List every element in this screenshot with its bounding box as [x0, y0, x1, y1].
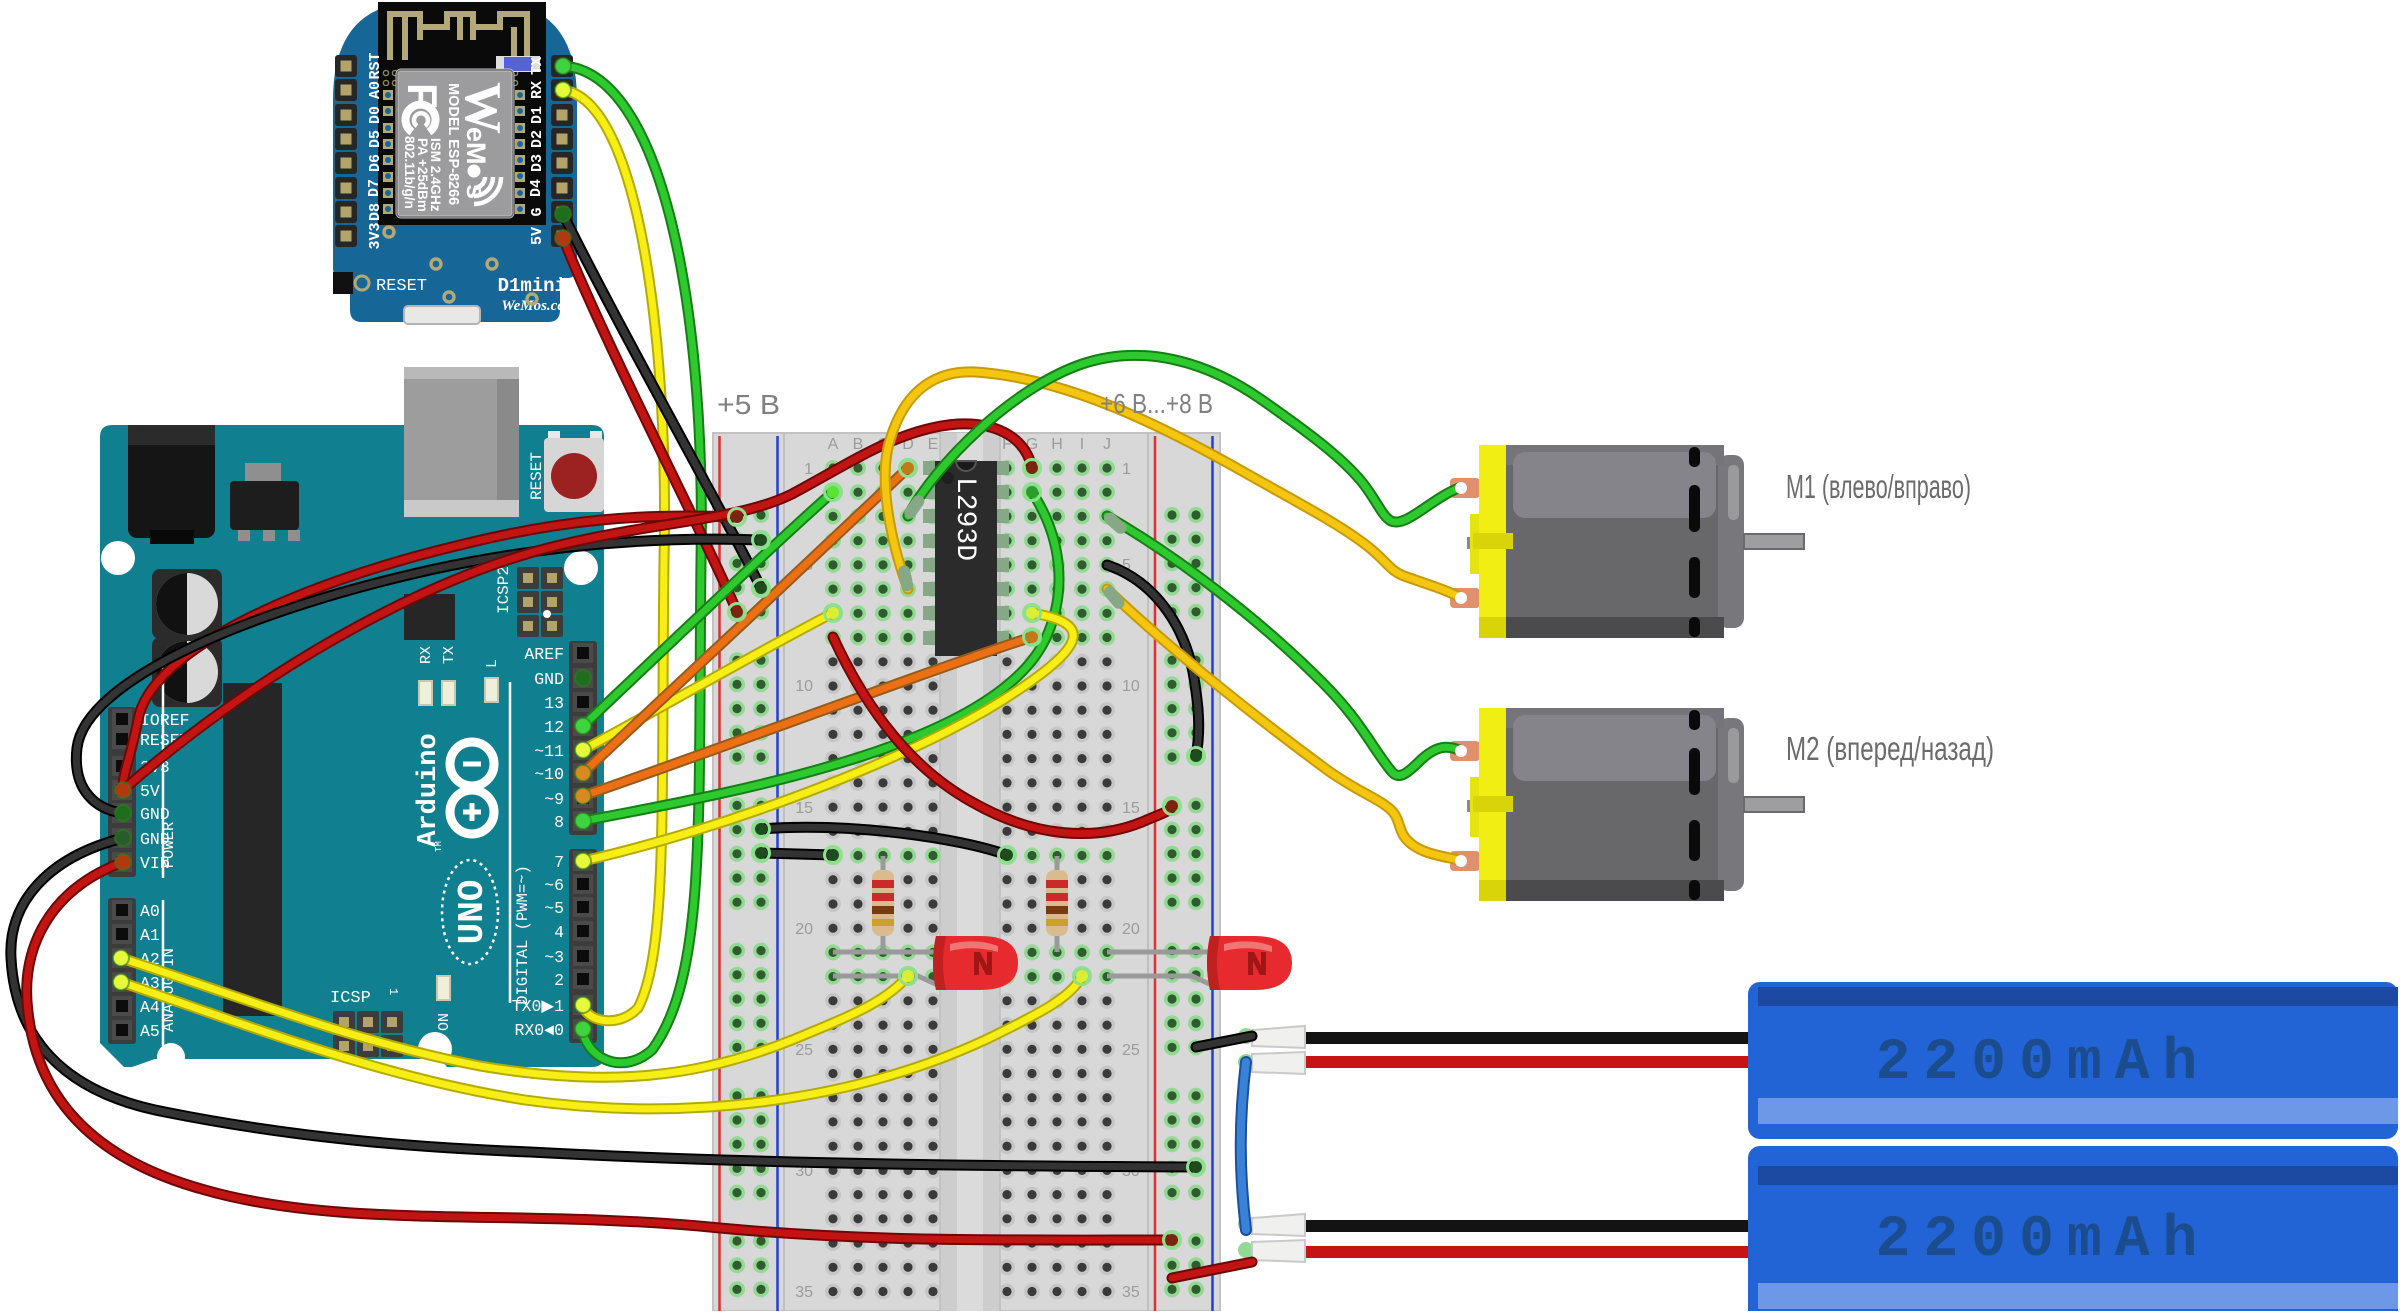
- svg-text:1: 1: [1122, 461, 1131, 478]
- svg-text:Arduino: Arduino: [414, 733, 444, 846]
- wire: Arduino VIN to right rail red row33 (red): [27, 862, 1172, 1240]
- Arduino digital headers: [569, 641, 597, 835]
- WeMos micro-usb: [404, 306, 480, 324]
- wire: Arduino A3 to I22 (yellow): [121, 976, 1082, 1109]
- wire: left rail blue to A17 (black): [761, 853, 833, 855]
- WeMos reset button: [333, 272, 353, 294]
- battery 1 (2200mAh): [1748, 982, 2398, 1139]
- IC L293D: [923, 461, 1009, 656]
- wire end caps on breadboard: [753, 580, 770, 597]
- svg-text:H: H: [1051, 436, 1063, 453]
- svg-text:D5: D5: [367, 130, 384, 148]
- svg-text:RX0◄0: RX0◄0: [514, 1021, 564, 1040]
- svg-text:10: 10: [1122, 678, 1140, 695]
- WeMos D1 mini board: [333, 2, 577, 324]
- resistor R1: [872, 856, 894, 952]
- Arduino ICSP header: [333, 1011, 355, 1033]
- svg-text:ANALOG IN: ANALOG IN: [160, 948, 178, 1032]
- svg-text:L293D: L293D: [949, 477, 980, 561]
- Arduino USB connector: [404, 367, 519, 517]
- svg-text:G: G: [529, 207, 546, 216]
- motor M2: [1450, 708, 1804, 901]
- svg-text:25: 25: [795, 1042, 813, 1059]
- motor M1: [1450, 445, 1804, 638]
- svg-text:D4: D4: [528, 179, 545, 197]
- Arduino power/analog headers: [108, 707, 136, 877]
- svg-text:ICSP: ICSP: [330, 989, 371, 1008]
- Arduino capacitor C2: [152, 637, 222, 707]
- svg-text:10: 10: [795, 678, 813, 695]
- svg-text:15: 15: [1122, 800, 1140, 817]
- resistor R2: [1046, 856, 1068, 952]
- svg-text:J: J: [1103, 436, 1111, 453]
- svg-text:+6 В...+8 В: +6 В...+8 В: [1100, 388, 1213, 419]
- svg-text:POWER: POWER: [160, 822, 178, 869]
- svg-text:AREF: AREF: [524, 645, 564, 664]
- WeMos ESP-8266 module black pcb: [378, 86, 546, 225]
- LED D2: [1107, 936, 1292, 990]
- dc motor body: [1505, 445, 1724, 638]
- svg-text:2200mAh: 2200mAh: [1876, 1031, 2211, 1096]
- Arduino voltage regulator: [245, 463, 281, 481]
- wire: right rail to battery2 red: [1172, 1262, 1252, 1278]
- wire: D3 to motor M1 upper terminal (green): [908, 355, 1459, 522]
- svg-text:~5: ~5: [544, 899, 564, 918]
- svg-text:A4: A4: [140, 998, 160, 1017]
- svg-text:GND: GND: [534, 670, 564, 689]
- wire: WeMos RX to Arduino pin1 (yellow): [563, 90, 665, 1021]
- svg-text:ICSP2: ICSP2: [495, 566, 513, 614]
- wire: J6 to motor M2 lower terminal (gold): [1107, 589, 1459, 860]
- wire: D6 to motor M1 lower terminal (gold): [885, 372, 1459, 597]
- motor vents: [1689, 447, 1700, 467]
- battery 2 wires: [1300, 1220, 1755, 1232]
- motor terminal holes: [1455, 482, 1467, 494]
- svg-text:~6: ~6: [544, 876, 564, 895]
- Arduino ICSP2 header: [517, 567, 539, 589]
- Arduino ATmega chip: [223, 683, 282, 1016]
- svg-text:A1: A1: [140, 926, 160, 945]
- svg-text:25: 25: [1122, 1042, 1140, 1059]
- svg-text:D7: D7: [366, 179, 383, 197]
- wire: Arduino pin7 to G7 (yellow): [583, 613, 1073, 861]
- breadboard right power rail lines: [1154, 436, 1157, 1311]
- svg-text:D6: D6: [367, 154, 384, 172]
- svg-text:A0: A0: [367, 81, 384, 99]
- WeMos ESP-8266 metal shield: [397, 70, 513, 217]
- wire: left rail blue to F17 (black): [761, 827, 1007, 855]
- svg-text:eM: eM: [461, 127, 491, 165]
- svg-text:35: 35: [795, 1284, 813, 1301]
- Arduino Uno board: [100, 367, 604, 1071]
- breadboard center channel: [940, 433, 1000, 1311]
- svg-text:M1 (влево/вправо): M1 (влево/вправо): [1786, 468, 1971, 505]
- svg-text:D3: D3: [529, 154, 546, 172]
- svg-text:D2: D2: [529, 130, 546, 148]
- svg-text:L: L: [484, 659, 501, 668]
- svg-text:A: A: [828, 436, 839, 453]
- motor terminals: [1450, 478, 1480, 498]
- svg-text:RX: RX: [529, 81, 546, 99]
- LED D1: [833, 936, 1018, 990]
- svg-text:RESET: RESET: [376, 277, 427, 296]
- breadboard left power rail lines: [718, 436, 721, 1311]
- motor vents: [1689, 710, 1700, 730]
- motor shaft: [1744, 534, 1804, 549]
- wire: A8 to right rail red (red): [833, 637, 1172, 834]
- Arduino reset button: [548, 431, 560, 441]
- svg-text:~9: ~9: [544, 790, 564, 809]
- wire: WeMos 5V to left rail red (red): [563, 238, 737, 612]
- svg-text:GND: GND: [140, 805, 170, 824]
- svg-text:13: 13: [544, 694, 564, 713]
- battery 1 connector: [1238, 1028, 1254, 1044]
- wire: WeMos TX to Arduino pin0 (green): [563, 66, 701, 1063]
- svg-text:1: 1: [804, 461, 813, 478]
- svg-text:5V: 5V: [140, 782, 160, 801]
- svg-text:E: E: [928, 436, 939, 453]
- wire: Arduino pin12 to A2 (green): [583, 492, 833, 726]
- svg-text:15: 15: [795, 800, 813, 817]
- motor shaft: [1744, 797, 1804, 812]
- wire: Arduino pin10 to D1 (orange): [583, 468, 908, 773]
- svg-text:~11: ~11: [534, 742, 564, 761]
- WeMos antenna area: [378, 2, 546, 66]
- svg-text:5V: 5V: [529, 227, 546, 245]
- breadboard rail holes: [729, 507, 745, 523]
- svg-text:2200mAh: 2200mAh: [1876, 1208, 2211, 1273]
- svg-text:TM: TM: [434, 841, 444, 852]
- svg-text:20: 20: [795, 921, 813, 938]
- svg-text:+5 В: +5 В: [717, 389, 780, 420]
- svg-text:D1: D1: [529, 106, 546, 124]
- svg-text:M2 (вперед/назад): M2 (вперед/назад): [1786, 730, 1994, 767]
- svg-text:4: 4: [554, 923, 564, 942]
- svg-text:35: 35: [1122, 1284, 1140, 1301]
- svg-text:A0: A0: [140, 902, 160, 921]
- svg-text:7: 7: [554, 853, 564, 872]
- breadboard holes: [825, 460, 841, 476]
- svg-text:IOREF: IOREF: [140, 711, 190, 730]
- battery 1 wires: [1300, 1032, 1755, 1044]
- svg-text:RESET: RESET: [528, 452, 546, 500]
- motor yellow cap: [1467, 800, 1475, 812]
- svg-text:~10: ~10: [534, 765, 564, 784]
- dc motor body: [1505, 708, 1724, 901]
- wire: Arduino 5V to breadboard G1 (red): [123, 424, 1032, 790]
- WeMos smd component: [496, 56, 540, 72]
- svg-text:D0: D0: [367, 106, 384, 124]
- pin connection dots: [575, 718, 591, 734]
- svg-text:UNO: UNO: [452, 880, 493, 945]
- wire: blue jumper battery1 to battery2: [1241, 1062, 1246, 1230]
- wire: Arduino GND2 to right rail blue row30 (black): [11, 838, 1196, 1167]
- Arduino mounting holes: [101, 541, 135, 575]
- Arduino power jack: [128, 425, 215, 538]
- wire: Arduino pin11 to A7 (yellow): [583, 613, 833, 750]
- svg-text:12: 12: [544, 718, 564, 737]
- wire: left rail red to Arduino 5V (red): [123, 516, 737, 790]
- wire: Arduino pin9 to G8 (orange): [583, 637, 1032, 796]
- svg-text:802.11b/g/n: 802.11b/g/n: [402, 136, 417, 209]
- battery 2 (2200mAh): [1748, 1146, 2398, 1316]
- svg-text:RST: RST: [367, 52, 384, 79]
- wire: WeMos G to left rail blue (black): [563, 214, 761, 588]
- wire: J3 to motor M2 upper terminal (green): [1107, 516, 1459, 775]
- svg-text:A5: A5: [140, 1022, 160, 1041]
- wire: right rail to battery1 black: [1196, 1036, 1252, 1047]
- motor terminals: [1450, 741, 1480, 761]
- Arduino logo: [450, 742, 494, 834]
- WeMos pin headers: [335, 55, 357, 77]
- svg-text:D8: D8: [367, 203, 384, 221]
- wire: Arduino A2 to D22 (yellow): [121, 958, 908, 1077]
- wire: Arduino pin8 to G2 (green): [583, 492, 1059, 821]
- wire: left rail blue to Arduino GND (black): [76, 539, 761, 813]
- wire sleeves: [897, 564, 914, 592]
- motor yellow cap: [1467, 537, 1475, 549]
- svg-text:I: I: [1080, 436, 1084, 453]
- svg-text:TX: TX: [529, 57, 546, 75]
- wire: J5 to right rail blue (black): [1107, 565, 1199, 756]
- svg-text:~3: ~3: [544, 948, 564, 967]
- svg-text:8: 8: [554, 813, 564, 832]
- battery 2 connector: [1238, 1216, 1254, 1232]
- svg-text:2: 2: [554, 971, 564, 990]
- svg-text:DIGITAL (PWM=~): DIGITAL (PWM=~): [514, 865, 532, 1005]
- svg-text:WeMos.cc: WeMos.cc: [501, 298, 564, 314]
- svg-text:TX: TX: [441, 646, 458, 664]
- svg-text:ON: ON: [436, 1013, 453, 1031]
- svg-text:1: 1: [386, 988, 400, 995]
- Arduino capacitor C1: [152, 569, 222, 639]
- svg-text:3V3: 3V3: [367, 222, 384, 249]
- svg-text:20: 20: [1122, 921, 1140, 938]
- breadboard: [713, 433, 1220, 1311]
- svg-text:RX: RX: [418, 646, 435, 664]
